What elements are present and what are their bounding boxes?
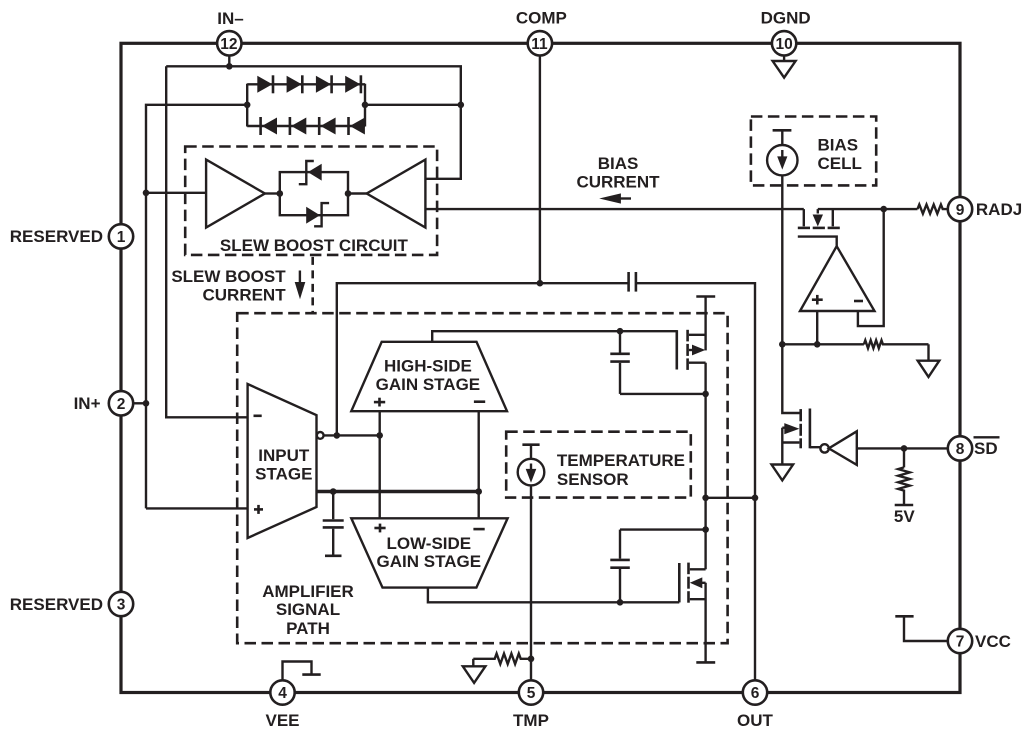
buffer amp A2 (right, left-pointing) — [367, 160, 426, 228]
amplifier signal path dashed box — [237, 313, 727, 643]
svg-text:COMP: COMP — [516, 9, 567, 28]
capacitor C2 series on comp line — [629, 272, 636, 292]
svg-text:IN+: IN+ — [74, 394, 101, 413]
wire IN- net horizontal y66 and right drop to slew amp input — [166, 66, 461, 179]
diode ladder rails — [246, 84, 248, 127]
I2 arrow head — [526, 469, 537, 483]
node dot plus column — [376, 432, 383, 439]
wire minus column vertical — [478, 411, 480, 518]
svg-text:CURRENT: CURRENT — [202, 286, 286, 305]
zener diode Z2 (bottom, right-pointing) — [306, 203, 329, 226]
high-side gain stage trapezoid — [351, 342, 507, 411]
current source I1 bias cell — [767, 130, 797, 175]
transistor Q1 high-side output MOSFET — [677, 330, 688, 370]
wire inverter input to pin 8 — [857, 447, 949, 449]
svg-text:RESERVED: RESERVED — [10, 227, 103, 246]
svg-text:12: 12 — [220, 36, 237, 53]
ground symbol DGND below pin 10 — [773, 55, 796, 78]
svg-text:9: 9 — [956, 202, 965, 219]
svg-text:8: 8 — [956, 441, 965, 458]
svg-text:RADJ: RADJ — [976, 200, 1022, 219]
node dot pin11 / comp wire — [537, 280, 544, 287]
svg-text:SENSOR: SENSOR — [557, 470, 629, 489]
op-amp U2 — [800, 246, 875, 311]
capacitor C1 Q1 gate-source — [610, 331, 705, 394]
node dot diode right rail — [362, 102, 369, 109]
node dot Q2 gate cap tap — [617, 599, 624, 606]
pin 1 RESERVED — [109, 224, 133, 248]
diode D4 — [345, 76, 360, 93]
node dot SD pullup tap — [901, 445, 908, 452]
wire R2 to ground — [472, 659, 474, 667]
pin 2 IN+ — [109, 391, 133, 415]
svg-text:GAIN STAGE: GAIN STAGE — [377, 552, 482, 571]
VEE rail symbol at pin 4 — [283, 662, 321, 682]
temperature sensor dashed box — [506, 432, 691, 498]
label plus op-amp — [812, 295, 823, 305]
VCC rail symbol at pin 7 — [895, 616, 948, 641]
Q4 body arrow — [784, 423, 799, 434]
node dot opamp plus / y344 — [814, 341, 821, 348]
rail stub T bias cell — [773, 129, 792, 132]
diode D2 — [287, 76, 302, 93]
rail stub T temp sensor — [522, 443, 539, 446]
node dot x461/y105 junction — [458, 102, 465, 109]
label minus input stage — [254, 414, 262, 417]
capacitor C3 below input stage — [323, 492, 344, 555]
svg-text:SLEW BOOST CIRCUIT: SLEW BOOST CIRCUIT — [220, 236, 409, 255]
pin 7 VCC — [948, 629, 972, 653]
svg-text:6: 6 — [751, 685, 760, 702]
wire A1 output to clamp box — [265, 192, 280, 194]
node dot output/x706 — [702, 495, 709, 502]
node dot clamp left — [277, 190, 284, 197]
node junction dot pin12/y66 — [226, 63, 233, 70]
ground symbol TMP resistor — [463, 666, 486, 683]
svg-text:SLEW BOOST: SLEW BOOST — [171, 267, 286, 286]
node dot minus column on thick wire — [475, 488, 482, 495]
diode D1 (top row, right-pointing) — [257, 76, 272, 93]
svg-text:SD: SD — [974, 439, 998, 458]
transistor Q4 shutdown FET — [801, 409, 810, 449]
svg-text:BIAS: BIAS — [598, 154, 639, 173]
Q3 body arrow (down) — [813, 215, 823, 227]
svg-text:5V: 5V — [894, 507, 915, 526]
svg-text:AMPLIFIER: AMPLIFIER — [262, 582, 354, 601]
current source I2 temperature sensor — [518, 445, 545, 486]
node dot clamp right — [345, 190, 352, 197]
resistor R2 TMP to ground — [473, 654, 531, 664]
capacitor C4 Q2 gate-drain — [610, 530, 705, 603]
svg-text:RESERVED: RESERVED — [10, 595, 103, 614]
label minus high-side — [474, 400, 485, 403]
wire input stage output to gain stage plus column — [324, 434, 380, 436]
pin 10 DGND — [772, 31, 796, 55]
svg-text:TEMPERATURE: TEMPERATURE — [557, 451, 685, 470]
slew boost circuit dashed box — [185, 147, 437, 255]
pin 8 SD — [948, 436, 972, 460]
wire output node to OUT vertical — [706, 497, 755, 499]
Q3 channel bars — [798, 227, 840, 230]
wire comp right arm to series cap — [540, 282, 628, 284]
svg-text:TMP: TMP — [513, 711, 549, 730]
pin 3 RESERVED — [109, 592, 133, 616]
thick wire input stage second output — [317, 490, 479, 494]
resistor R4 5V pullup (vertical) — [898, 467, 910, 504]
wire plus column vertical — [379, 411, 381, 518]
node dot output/OUT — [752, 495, 759, 502]
svg-text:STAGE: STAGE — [255, 465, 312, 484]
diode ladder top branch wire — [247, 83, 365, 85]
label minus op-amp — [854, 300, 863, 303]
node dot cap tap on thick wire — [330, 488, 337, 495]
diode ladder bottom branch wire — [247, 125, 365, 127]
svg-text:3: 3 — [117, 597, 126, 614]
wire bias node y344 — [782, 343, 864, 345]
svg-text:2: 2 — [117, 396, 126, 413]
wire low-side bottom to Q2 gate — [428, 588, 679, 603]
node dot Q1 source — [702, 391, 709, 398]
Q2 body line — [702, 582, 706, 584]
wire IN- vertical to input stage minus — [166, 66, 247, 417]
input stage trapezoid — [248, 384, 317, 538]
resistor R3 op-amp reference — [864, 340, 929, 348]
label plus high-side — [374, 398, 385, 407]
transistor Q2 low-side output MOSFET — [679, 563, 688, 603]
node dot IN+ / slew input — [143, 190, 150, 197]
diode D8 — [350, 118, 365, 135]
svg-text:VCC: VCC — [975, 632, 1011, 651]
svg-text:11: 11 — [531, 36, 548, 53]
resistor R1 RADJ — [918, 205, 949, 214]
wire A2 input to clamp box — [348, 192, 367, 194]
rail stub T VEE below Q2 — [696, 661, 715, 664]
arrow slew boost current down — [295, 271, 306, 300]
rail stub T VCC above Q1 — [696, 295, 715, 298]
wire pin2 stub — [133, 402, 146, 404]
svg-text:10: 10 — [775, 36, 792, 53]
svg-text:PATH: PATH — [286, 619, 330, 638]
wire IN+ net: y105 horizontal to diode ladder — [146, 105, 247, 509]
low-side gain stage trapezoid — [351, 518, 507, 587]
wire RADJ net right portion — [818, 208, 918, 210]
pin 5 TMP — [519, 680, 543, 704]
svg-text:DGND: DGND — [761, 9, 811, 28]
wire output node vertical — [704, 394, 706, 530]
node dot diode left rail — [244, 102, 251, 109]
diode D5 (bottom row, left-pointing) — [262, 118, 277, 135]
inverter bubble — [820, 444, 828, 452]
svg-text:CURRENT: CURRENT — [576, 172, 660, 191]
node dot Q2 drain — [702, 526, 709, 533]
label plus input stage — [254, 505, 263, 514]
Q1 body arrow — [692, 345, 705, 356]
svg-text:7: 7 — [956, 634, 965, 651]
clamp box rectangle — [280, 172, 348, 215]
ground symbol op-amp reference — [918, 361, 940, 377]
wire Q4 gate to inverter bubble — [810, 446, 821, 448]
svg-text:IN–: IN– — [217, 9, 243, 28]
node dot Q1 gate cap tap — [617, 328, 624, 335]
wire cap to OUT vertical — [636, 283, 755, 681]
Q1 body line — [689, 349, 693, 351]
diode D6 — [291, 118, 306, 135]
label plus low-side — [374, 524, 385, 533]
node dot comp tap — [334, 432, 341, 439]
node dot IN+ / pin2 — [143, 400, 150, 407]
label minus low-side — [473, 528, 484, 531]
wire A2 lower output to RADJ line — [425, 208, 803, 210]
svg-text:BIAS: BIAS — [818, 135, 859, 154]
svg-text:1: 1 — [117, 229, 126, 246]
wire op-amp plus input — [816, 311, 818, 344]
SD overline bar — [974, 436, 1000, 438]
rail stub T 5V — [895, 504, 914, 507]
bias cell dashed box — [751, 117, 876, 186]
Q3 gate wire from op-amp output — [798, 237, 837, 247]
zener diode Z1 (top, left-pointing) — [299, 161, 322, 184]
bubble input stage output — [317, 432, 324, 439]
node dot RADJ / feedback — [880, 206, 887, 213]
arrow bias current left — [599, 193, 631, 203]
pin 4 VEE — [270, 680, 294, 704]
wire COMP net: down from pin11, left arm, into node — [337, 55, 540, 436]
pin 11 COMP — [528, 31, 552, 55]
svg-text:LOW-SIDE: LOW-SIDE — [386, 534, 471, 553]
node dot TMP resistor tap — [528, 656, 535, 663]
buffer amp A1 (left, right-pointing) — [206, 160, 265, 228]
pin 9 RADJ — [948, 197, 972, 221]
svg-text:VEE: VEE — [265, 711, 299, 730]
wire op-amp minus feedback to RADJ node — [858, 209, 884, 326]
wire R3 to ground — [927, 344, 929, 360]
svg-text:SIGNAL: SIGNAL — [276, 600, 340, 619]
rail stub T below C3 — [325, 554, 342, 557]
wire high-side top to Q1 gate — [432, 331, 677, 342]
chip boundary border — [121, 43, 960, 692]
svg-text:5: 5 — [527, 685, 536, 702]
transistor Q3 RADJ mirror FET (horizontal) — [804, 209, 833, 226]
svg-text:4: 4 — [278, 685, 287, 702]
ground symbol Q4 source — [772, 465, 794, 481]
wire IN+ to input stage plus — [146, 507, 248, 509]
diode D3 — [316, 76, 331, 93]
Q2 body arrow — [690, 577, 703, 588]
wire IN- net: pin12 stem — [228, 55, 230, 67]
svg-text:INPUT: INPUT — [258, 446, 310, 465]
dashed slew current path into amplifier box — [311, 257, 314, 313]
wire slew amp input tap — [146, 192, 206, 194]
wire SD node to R4 — [903, 448, 905, 467]
svg-text:OUT: OUT — [737, 711, 774, 730]
wire temp sensor to TMP pin — [530, 485, 532, 681]
node dot bias / opamp plus — [779, 341, 786, 348]
I1 arrow head — [777, 156, 787, 169]
pin 6 OUT — [743, 680, 767, 704]
pin 12 IN- — [217, 31, 241, 55]
wire bias cell down to Q4 — [782, 175, 800, 413]
svg-text:HIGH-SIDE: HIGH-SIDE — [384, 357, 472, 376]
svg-text:CELL: CELL — [818, 154, 862, 173]
wire diode ladder mid right to x461 — [365, 104, 461, 106]
diode D7 — [321, 118, 336, 135]
inverter U3 triangle — [829, 431, 857, 465]
svg-text:GAIN STAGE: GAIN STAGE — [376, 375, 481, 394]
